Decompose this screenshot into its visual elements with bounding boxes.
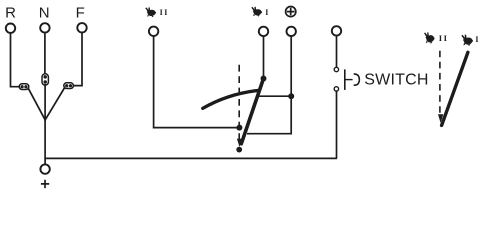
lever position I (detail) [442,52,468,125]
wire N terminal to link [44,33,46,76]
terminal II [149,27,158,36]
wire F link to node [45,88,64,120]
label + [41,180,49,188]
svg-text:N: N [39,5,50,22]
wire terminal II to selector node [154,36,237,128]
terminal battery [287,27,296,36]
wire battery node to lever (lower tap) [247,96,291,134]
wire battery terminal down [290,36,292,94]
wire F terminal to link [74,32,83,85]
wire terminal I to lever pivot [263,36,265,77]
link LK2 (N) [42,74,48,85]
link LK1 (R) [19,84,29,90]
svg-text:I: I [475,35,478,44]
wire R terminal to link [11,33,20,87]
symbol plus-in-circle [286,7,296,17]
hare icon II (detail) [424,32,435,44]
svg-text:R: R [5,5,16,22]
svg-text:I: I [265,8,268,17]
svg-text:F: F [76,5,85,22]
wire node to + terminal [44,119,46,165]
terminal switch [332,26,341,35]
junction dot battery node [288,93,294,99]
link LK3 (F) [64,83,74,89]
terminal + [40,164,49,173]
hare icon I [251,7,262,17]
junction dot lever top [261,76,267,82]
selector position II dashed line [238,65,240,140]
svg-text:SWITCH: SWITCH [364,72,428,89]
junction dot position II [236,125,242,131]
terminal N [40,23,49,32]
position II dashed line (detail) [439,51,441,115]
bottom bus wire [45,157,337,159]
selector pivot dot [236,147,242,153]
svg-text:II: II [160,8,169,17]
arrow head (detail) [438,114,443,123]
switch actuator fork [354,74,360,85]
switch actuator bar [344,69,346,90]
selector lever [241,79,263,144]
selector arrow head [237,139,242,147]
terminal I [259,27,268,36]
wire switch terminal to contact [336,36,338,68]
hare icon I (detail) [461,34,473,46]
switch actuator link [345,79,353,81]
wire R link to node [28,88,45,120]
terminal R [6,24,15,33]
wire N link to node [44,84,46,121]
selector travel arc [203,90,259,108]
terminal F [77,23,86,32]
wire lever upper tap to battery node [258,95,290,97]
switch contact lower [334,87,338,91]
hare icon II [145,7,156,17]
svg-text:II: II [439,33,449,43]
wire switch contact to bus [336,91,338,158]
switch contact upper [334,67,338,71]
